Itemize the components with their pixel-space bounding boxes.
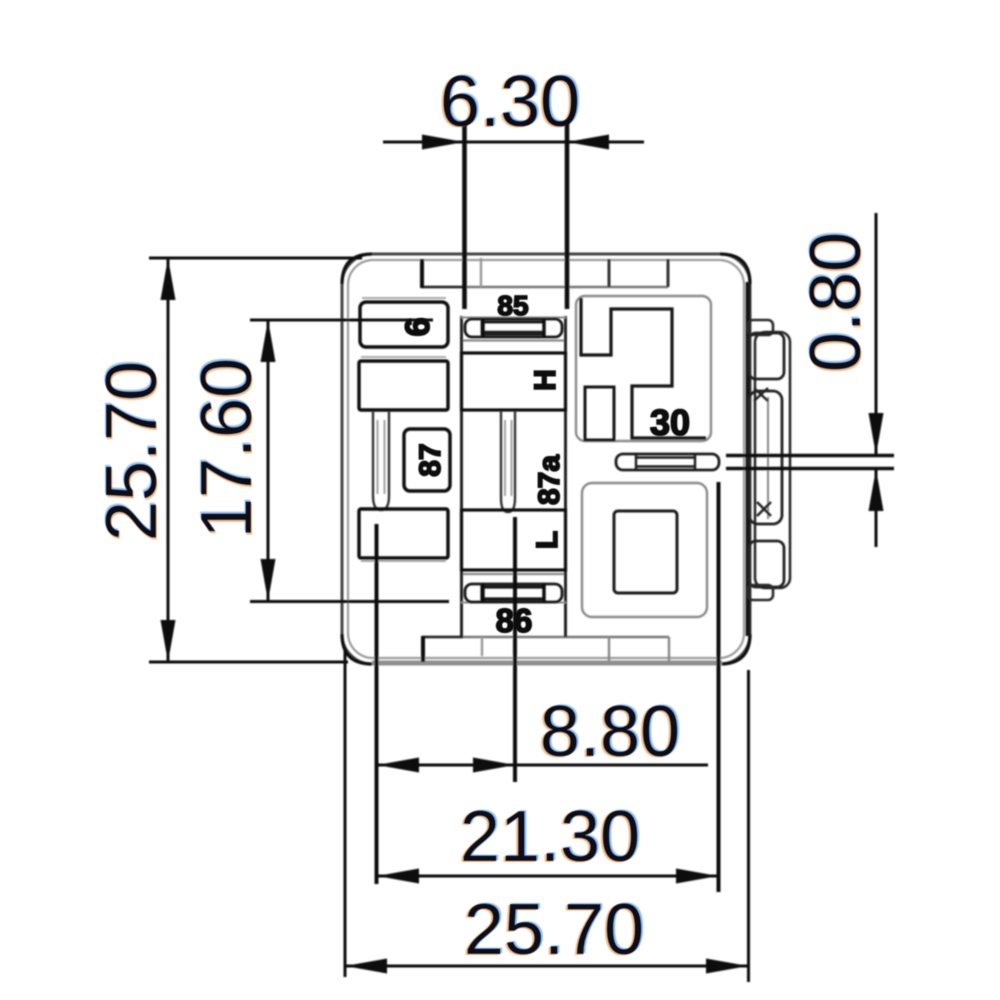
dim 0.80 line (875, 213, 878, 455)
svg-text:L: L (531, 531, 564, 549)
right mount bracket small tab bottom (748, 585, 773, 600)
dim 25.70 bottom line (345, 965, 748, 968)
dim 6.30 ext line left (462, 122, 467, 309)
svg-text:21.30: 21.30 (460, 797, 640, 877)
top notch stub x609 (608, 259, 611, 287)
center column left edge (460, 316, 463, 637)
top notch stub x668 (667, 259, 670, 287)
svg-text:85: 85 (497, 290, 528, 321)
body corner arcs black (342, 254, 372, 284)
bottom notch stub x669 (668, 637, 670, 661)
dim 21.30 line (377, 875, 718, 878)
right mount bracket small tab top (748, 320, 773, 335)
svg-text:6: 6 (399, 318, 437, 337)
dim 21.30 ext line right (717, 482, 721, 892)
right mount bracket upper sub (749, 333, 784, 379)
cavity 30 outer (576, 296, 711, 441)
relay body inner shell (348, 260, 744, 658)
pin L box (462, 510, 566, 570)
svg-text:30: 30 (650, 402, 690, 443)
bracket break mark upper (754, 388, 768, 401)
pin label 86 (496, 602, 533, 639)
pin H box (462, 353, 566, 410)
dim 0.80 ext lines (726, 454, 894, 457)
pin label L (rotated) (531, 531, 564, 549)
dim 25.70 left ext lines (149, 257, 362, 260)
dim 8.80 line (376, 764, 708, 767)
bottom inner cover line (422, 636, 669, 638)
big lower-right cavity inner rect (614, 511, 677, 593)
pin 87 label box (404, 429, 450, 491)
top notch stub x421 (420, 259, 424, 288)
pin cavity rect lower-left (359, 509, 448, 558)
pin 87a slot (narrow, center) (501, 411, 515, 512)
top inner cover line (421, 286, 668, 288)
dim text 21.30 (460, 797, 640, 877)
bottom notch stub x609 (608, 637, 610, 661)
dim 25.70 bottom ext lines (344, 648, 347, 977)
cavity 30 stepped key outline (581, 298, 706, 438)
pin 85 slot group (465, 319, 562, 337)
pin 87 slot (narrow, left) (373, 411, 389, 510)
pin label 30 (650, 402, 690, 443)
pin label H (rotated) (529, 369, 562, 391)
svg-text:6.30: 6.30 (440, 62, 580, 142)
top notch stub x481 (480, 258, 482, 287)
center column right edge (564, 316, 567, 637)
svg-text:17.60: 17.60 (187, 358, 267, 538)
bottom notch stub x423 (421, 636, 425, 662)
pin cavity 6 box (360, 302, 448, 347)
svg-text:H: H (529, 369, 562, 391)
pin label 6 (rotated) (399, 318, 437, 337)
dim 17.60 line (267, 320, 270, 601)
svg-text:87: 87 (414, 443, 447, 476)
body bottom edge emphasis (372, 661, 722, 666)
dim 17.60 ext lines (250, 319, 433, 322)
dim text 0.80 (rotated) (796, 232, 876, 372)
slot 0.80 outer (616, 454, 719, 470)
pin cavity rect upper-left (359, 361, 448, 410)
right mount bracket middle sub (749, 391, 782, 524)
right mount bracket lower sub (749, 541, 784, 587)
svg-text:87a: 87a (533, 455, 566, 505)
dim 8.80 ext line left (shared with 21.30) (375, 524, 379, 884)
dim 8.80 ext line right (513, 517, 517, 782)
dim 6.30 line (383, 141, 644, 144)
pin label 85 (497, 290, 528, 321)
dim text 6.30 (440, 62, 580, 142)
pin label 87a (rotated) (533, 455, 566, 505)
svg-text:25.70: 25.70 (92, 361, 172, 541)
dim text 8.80 (540, 692, 680, 772)
bracket break mark lower (757, 502, 771, 516)
svg-text:0.80: 0.80 (796, 232, 876, 372)
centre column band lines (461, 317, 566, 319)
dim 25.70 left line (167, 258, 170, 662)
pin 86 slot group (465, 584, 562, 602)
svg-text:25.70: 25.70 (464, 890, 644, 970)
cavity 30 small rect (585, 387, 614, 440)
slot 0.80 inner bar (636, 456, 695, 458)
relay body outer outline (342, 254, 750, 664)
dim text 25.70 bottom (464, 890, 644, 970)
right mount bracket tall outer (755, 332, 790, 588)
svg-text:86: 86 (496, 602, 533, 639)
bottom notch stub x482 (481, 637, 483, 656)
big lower-right cavity outer (582, 483, 707, 617)
svg-text:8.80: 8.80 (540, 692, 680, 772)
dim text 25.70 left (rotated) (92, 361, 172, 541)
dim text 17.60 (rotated) (187, 358, 267, 538)
body right edge emphasis (746, 282, 751, 636)
pin label 87 (rotated) (414, 443, 447, 476)
dim 6.30 ext line right (565, 122, 570, 309)
